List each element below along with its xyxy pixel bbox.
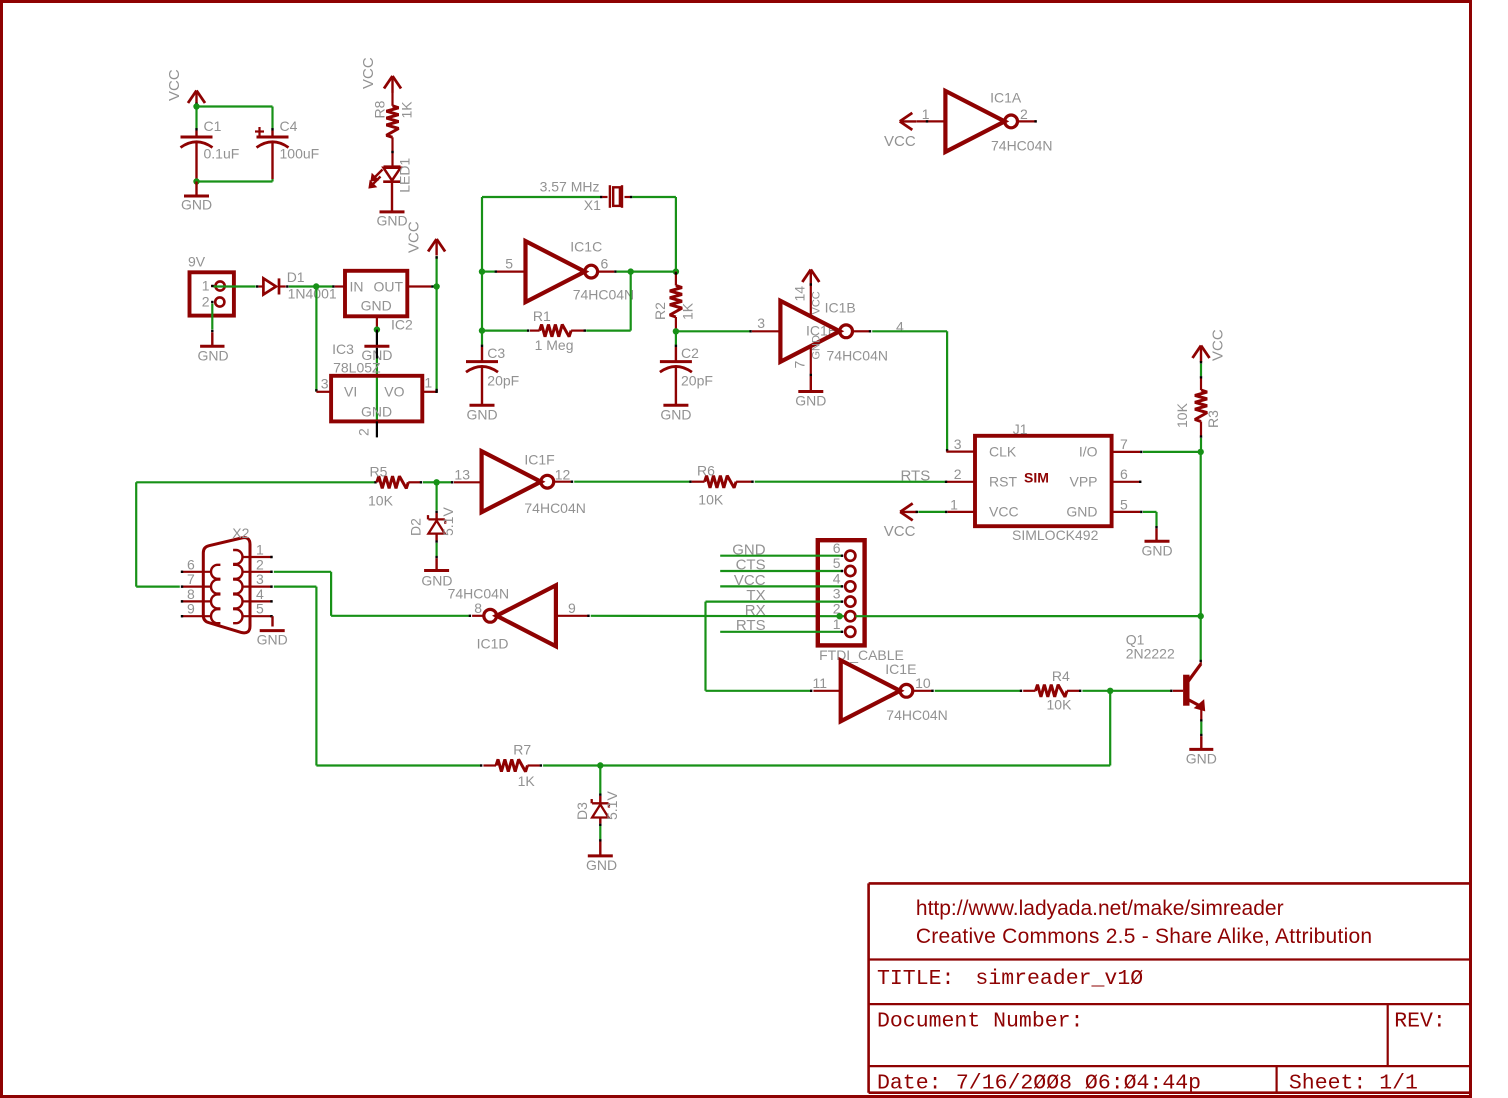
- svg-text:IC2: IC2: [391, 317, 413, 333]
- wire collector up: [1200, 616, 1202, 664]
- pin tick D1 cathode: [286, 285, 288, 287]
- svg-text:R3: R3: [1205, 410, 1221, 428]
- svg-text:5: 5: [1120, 496, 1128, 512]
- junction node R2 top: [673, 268, 679, 274]
- wire J1 GND to ground: [1143, 512, 1157, 529]
- svg-text:1: 1: [424, 375, 432, 391]
- wire R6 to J1 RST: [755, 481, 946, 483]
- wire R1 to feedback: [586, 272, 631, 331]
- inverter IC1B: [780, 300, 888, 364]
- svg-text:C1: C1: [204, 118, 222, 134]
- title block license text: [916, 925, 1372, 948]
- resistor R1: [530, 308, 585, 353]
- junction node Q1 collector: [1198, 613, 1204, 619]
- svg-text:9V: 9V: [188, 254, 206, 270]
- svg-text:IC1F: IC1F: [524, 452, 554, 468]
- inverter IC1E: [841, 660, 948, 723]
- junction node R5-D2: [433, 479, 439, 485]
- pin ticks crystal: [601, 196, 631, 198]
- pin IC3 VO stub: [422, 375, 437, 394]
- svg-text:1: 1: [202, 278, 210, 294]
- wire TX down to IC1E: [706, 602, 812, 692]
- pin IC1B pin3: [752, 315, 780, 331]
- pin J1 pin2 RST: [946, 466, 975, 482]
- wire VCC to R3: [1200, 364, 1202, 379]
- svg-text:74HC04N: 74HC04N: [524, 500, 585, 516]
- svg-text:4: 4: [256, 586, 264, 602]
- ground GND below IC1B: [795, 392, 826, 409]
- svg-text:GND: GND: [361, 298, 392, 314]
- pin X2 pin4: [243, 586, 273, 603]
- net label RTS: [901, 468, 931, 485]
- svg-text:5.1V: 5.1V: [440, 507, 456, 536]
- pin IC3 VI stub: [316, 376, 331, 392]
- svg-text:4: 4: [833, 571, 841, 587]
- svg-text:7: 7: [792, 361, 808, 369]
- svg-text:2: 2: [356, 428, 372, 436]
- svg-text:12: 12: [555, 467, 571, 483]
- svg-text:LED1: LED1: [397, 158, 413, 193]
- svg-text:GND: GND: [197, 348, 228, 364]
- svg-text:20pF: 20pF: [681, 373, 713, 389]
- svg-text:10K: 10K: [1047, 697, 1073, 713]
- svg-text:3: 3: [321, 376, 329, 392]
- ground GND between IC2 and IC3: [361, 330, 392, 363]
- pin IC1B pin7 GND: [792, 335, 823, 392]
- svg-text:VCC: VCC: [166, 69, 183, 101]
- resistor R6: [692, 463, 753, 508]
- svg-text:7: 7: [1120, 436, 1128, 452]
- junction node I/O-R3: [1198, 449, 1204, 455]
- svg-text:3: 3: [833, 586, 841, 602]
- pin X2 pin8: [181, 586, 211, 603]
- svg-text:C4: C4: [280, 118, 298, 134]
- svg-text:1: 1: [922, 106, 930, 122]
- junction node R4-R7: [1107, 688, 1113, 694]
- capacitor C4 (polarized): [255, 118, 319, 179]
- pin tick 9V pin1: [211, 285, 213, 287]
- junction node D1-IC2: [313, 283, 319, 289]
- pin IC1C pin5: [497, 256, 526, 272]
- inverter IC1A: [945, 90, 1052, 154]
- svg-text:D1: D1: [287, 269, 305, 285]
- svg-text:GND: GND: [466, 407, 497, 423]
- ground GND below LED1: [376, 182, 407, 229]
- power symbol VCC (R8): [360, 57, 401, 92]
- power symbol VCC (IC2 OUT): [406, 221, 445, 286]
- wire RX through connector: [855, 615, 1200, 617]
- wire C1 top to C4 top: [197, 107, 273, 129]
- svg-text:1K: 1K: [518, 773, 536, 789]
- wire R5 to IC1F: [423, 481, 437, 483]
- wire bottom rail left: [316, 764, 481, 766]
- svg-text:13: 13: [454, 467, 470, 483]
- svg-text:10K: 10K: [698, 492, 724, 508]
- svg-text:SIMLOCK492: SIMLOCK492: [1012, 527, 1099, 543]
- svg-text:5.1V: 5.1V: [604, 791, 620, 820]
- junction node C3-R1: [479, 327, 485, 333]
- svg-text:RST: RST: [989, 474, 1017, 490]
- svg-text:GND: GND: [1141, 543, 1172, 559]
- wire Q1 emitter to ground: [1200, 707, 1202, 750]
- svg-text:2: 2: [202, 294, 210, 310]
- pin IC1F pin12: [554, 467, 572, 483]
- svg-text:GND: GND: [795, 393, 826, 409]
- net wire RTS (FTDI pin1): [720, 617, 843, 634]
- pin IC1F pin13: [454, 467, 482, 483]
- crystal X1: [540, 179, 630, 214]
- wire 9V pin1 to D1: [214, 285, 256, 287]
- wire R3 to I/O junction: [1200, 438, 1202, 452]
- capacitor C1: [181, 118, 240, 179]
- junction node IC1C in: [479, 268, 485, 274]
- pin J1 pin6 VPP: [1112, 466, 1142, 483]
- junction node IC2 GND: [374, 326, 380, 332]
- pin X2 pin1: [243, 542, 273, 559]
- resistor R2: [652, 272, 696, 329]
- svg-text:6: 6: [833, 540, 841, 556]
- wire VCC rail down to IC3 VO: [436, 287, 438, 392]
- pin IC1B pin4: [853, 319, 904, 335]
- pin X2 pin5: [243, 601, 273, 618]
- svg-text:VCC: VCC: [1210, 329, 1227, 361]
- pin IC1A pin1: [917, 106, 946, 123]
- svg-text:TITLE:: TITLE:: [877, 967, 954, 991]
- wire IC2 OUT junction: [434, 285, 437, 287]
- wire IC1D out to FTDI RX row: [591, 615, 846, 618]
- pin X2 pin2: [243, 556, 273, 573]
- svg-text:8: 8: [474, 600, 482, 616]
- pin X2 pin6: [181, 556, 211, 573]
- svg-text:20pF: 20pF: [487, 373, 519, 389]
- wire bottom rail right: [600, 691, 1110, 766]
- wire R7 to D3 junction: [543, 764, 600, 766]
- svg-text:2: 2: [256, 556, 264, 572]
- ground GND for J1 pin5: [1141, 529, 1172, 559]
- svg-text:1: 1: [950, 496, 958, 512]
- inverter IC1B hidden name: [806, 323, 837, 339]
- svg-text:74HC04N: 74HC04N: [886, 707, 947, 723]
- junction node R1 top: [628, 268, 634, 274]
- junction node VCC-C1: [193, 103, 199, 110]
- svg-text:10K: 10K: [1174, 402, 1190, 428]
- svg-text:74HC04N: 74HC04N: [573, 287, 634, 303]
- wire junction to Q1 base: [1110, 690, 1171, 692]
- pin IC1A pin2: [1018, 106, 1037, 123]
- svg-text:GND: GND: [1186, 751, 1217, 767]
- power symbol VCC (J1 pin1): [884, 503, 946, 540]
- wire junction down to IC3 VI: [315, 287, 317, 392]
- power symbol VCC (R3): [1193, 329, 1227, 363]
- svg-text:I/O: I/O: [1079, 444, 1098, 460]
- svg-text:simreader_v1Ø: simreader_v1Ø: [975, 967, 1143, 991]
- net wire CTS (FTDI pin5): [720, 557, 843, 574]
- wire R4 to base junction: [1082, 690, 1110, 692]
- net wire VCC (FTDI pin4): [720, 572, 843, 589]
- svg-text:2N2222: 2N2222: [1126, 646, 1175, 662]
- svg-text:2: 2: [954, 466, 962, 482]
- svg-text:14: 14: [792, 286, 808, 302]
- svg-text:VCC: VCC: [884, 523, 916, 540]
- wire GND net through IC3: [376, 348, 378, 422]
- pin IC2 IN stub: [335, 285, 345, 287]
- svg-text:IC1C: IC1C: [570, 239, 602, 255]
- svg-text:IN: IN: [350, 279, 364, 295]
- title block document number row: [877, 1010, 1446, 1034]
- wire junction to pin13: [437, 481, 453, 483]
- svg-text:6: 6: [601, 256, 609, 272]
- pin IC2 GND stub: [376, 316, 378, 329]
- svg-text:6: 6: [1120, 466, 1128, 482]
- wire C1 bottom to C4 bottom: [197, 179, 273, 182]
- svg-text:http://www.ladyada.net/make/si: http://www.ladyada.net/make/simreader: [916, 897, 1284, 920]
- pin IC3 GND stub: [356, 421, 377, 437]
- svg-text:7/16/2ØØ8 Ø6:Ø4:44p: 7/16/2ØØ8 Ø6:Ø4:44p: [956, 1072, 1201, 1096]
- wire X2 pin3 down: [274, 587, 317, 766]
- svg-text:1K: 1K: [399, 101, 415, 119]
- wire IC1C out to R2 top: [617, 271, 676, 273]
- power symbol VCC (IC1B pin14): [792, 270, 823, 317]
- title block url text: [916, 897, 1284, 920]
- connector FTDI cable box: [818, 540, 904, 663]
- svg-text:7: 7: [187, 571, 195, 587]
- net wire TX (FTDI pin3): [706, 587, 844, 604]
- wire IC1C input: [482, 270, 496, 272]
- junction node R7-D3: [597, 762, 603, 768]
- svg-text:GND: GND: [181, 197, 212, 213]
- wire R2 to IC1B pin3: [676, 330, 751, 332]
- wire down to C3/R1: [481, 272, 483, 331]
- net wire GND (FTDI pin6): [720, 541, 843, 558]
- ground GND below C3: [466, 405, 497, 422]
- wire D2 to ground: [436, 543, 438, 571]
- ground GND below D2: [421, 571, 452, 589]
- wire IC1B out to J1 CLK: [872, 331, 947, 451]
- pin IC1D pin9: [556, 600, 589, 617]
- pin J1 pin1 VCC: [948, 496, 975, 512]
- connector X2 DB9 body: [203, 525, 250, 633]
- pin IC2 OUT stub: [407, 285, 432, 287]
- svg-text:D3: D3: [574, 802, 590, 820]
- pin tick IC2 IN: [332, 285, 334, 287]
- svg-text:C3: C3: [487, 345, 505, 361]
- voltage regulator IC2 box: [345, 271, 413, 333]
- svg-text:VCC: VCC: [989, 504, 1019, 520]
- svg-text:IC1D: IC1D: [477, 636, 509, 652]
- svg-text:74HC04N: 74HC04N: [827, 348, 888, 364]
- svg-text:6: 6: [187, 556, 195, 572]
- diode D1: [259, 269, 337, 302]
- inverter IC1C: [526, 239, 635, 303]
- resistor R5: [368, 464, 421, 509]
- svg-text:1K: 1K: [680, 302, 696, 320]
- svg-text:VI: VI: [344, 384, 357, 400]
- connector J1 SIM socket box: [975, 421, 1112, 543]
- pin X2 pin3: [243, 571, 273, 588]
- svg-text:VCC: VCC: [811, 291, 823, 314]
- resistor R4: [1023, 668, 1080, 713]
- svg-text:R2: R2: [652, 302, 668, 320]
- connector X1 9V battery: [188, 254, 234, 316]
- svg-text:10: 10: [915, 675, 931, 691]
- svg-text:3: 3: [757, 315, 765, 331]
- svg-text:5: 5: [256, 601, 264, 617]
- svg-text:Sheet: 1/1: Sheet: 1/1: [1289, 1072, 1418, 1096]
- ground GND below C1: [181, 182, 212, 213]
- svg-text:GND: GND: [660, 407, 691, 423]
- ground GND for X2 pin5: [257, 616, 288, 647]
- svg-text:10K: 10K: [368, 493, 394, 509]
- svg-text:R1: R1: [533, 308, 551, 324]
- svg-text:Document Number:: Document Number:: [877, 1010, 1083, 1034]
- ground GND below Q1: [1186, 749, 1217, 766]
- svg-text:GND: GND: [376, 213, 407, 229]
- svg-text:R5: R5: [370, 464, 388, 480]
- svg-text:1: 1: [256, 542, 264, 558]
- pin X2 pin7: [181, 571, 211, 588]
- junction node C1-C4 bottom: [193, 178, 199, 184]
- wire D3 to ground: [599, 826, 601, 856]
- resistor R8: [372, 92, 415, 137]
- wire X2 pin2 to IC1D: [274, 572, 470, 617]
- pin IC1E pin11: [812, 675, 840, 691]
- svg-text:IC3: IC3: [332, 341, 354, 357]
- pin IC1C pin6: [598, 256, 615, 273]
- svg-text:Date:: Date:: [877, 1072, 942, 1096]
- resistor R7: [483, 742, 541, 790]
- svg-text:GND: GND: [811, 335, 823, 360]
- zener diode D3: [574, 766, 620, 827]
- svg-text:11: 11: [812, 675, 827, 691]
- svg-text:0.1uF: 0.1uF: [204, 146, 240, 162]
- svg-text:78L05Z: 78L05Z: [333, 360, 381, 376]
- power symbol VCC (C1/C4 rail): [166, 69, 205, 107]
- pin J1 pin7 I/O: [1112, 436, 1142, 453]
- svg-text:OUT: OUT: [373, 279, 403, 295]
- svg-text:R6: R6: [697, 463, 715, 479]
- svg-text:IC1A: IC1A: [990, 90, 1022, 106]
- svg-text:GND: GND: [257, 632, 288, 648]
- svg-text:3: 3: [954, 436, 962, 452]
- svg-text:1N4001: 1N4001: [288, 286, 337, 302]
- junction node IC2 OUT: [433, 283, 439, 289]
- svg-text:IC1E: IC1E: [885, 661, 916, 677]
- svg-text:74HC04N: 74HC04N: [991, 138, 1052, 154]
- svg-text:RTS: RTS: [736, 617, 766, 634]
- svg-text:D2: D2: [408, 518, 424, 536]
- svg-text:VCC: VCC: [884, 133, 916, 150]
- svg-text:Creative Commons 2.5 - Share A: Creative Commons 2.5 - Share Alike, Attr…: [916, 925, 1372, 948]
- svg-text:1 Meg: 1 Meg: [535, 337, 574, 353]
- junction node FTDI RX: [836, 613, 842, 619]
- wire J1 I/O to R3: [1143, 451, 1201, 453]
- inverter IC1D: [448, 585, 556, 651]
- svg-text:9: 9: [187, 601, 195, 617]
- power symbol VCC (IC1A input): [884, 113, 916, 150]
- svg-text:100uF: 100uF: [280, 146, 320, 162]
- ground GND below C2: [660, 405, 691, 422]
- zener diode D2: [408, 482, 457, 543]
- LED LED1: [369, 158, 412, 193]
- pin ticks C1/C4 tops: [197, 128, 273, 130]
- capacitor C2: [660, 331, 713, 405]
- svg-text:R4: R4: [1052, 668, 1070, 684]
- pin IC1D pin8: [472, 600, 483, 616]
- svg-text:R8: R8: [372, 100, 388, 118]
- svg-text:3.57 MHz: 3.57 MHz: [540, 179, 600, 195]
- svg-text:SIM: SIM: [1024, 470, 1049, 486]
- svg-text:2: 2: [1020, 106, 1028, 122]
- svg-text:8: 8: [187, 586, 195, 602]
- svg-text:GND: GND: [361, 404, 392, 420]
- svg-text:VO: VO: [384, 384, 404, 400]
- wire IC1E out to R4: [935, 690, 1021, 692]
- svg-text:CLK: CLK: [989, 444, 1017, 460]
- title block frame: [869, 883, 1471, 1092]
- svg-text:VPP: VPP: [1069, 474, 1097, 490]
- svg-text:C2: C2: [681, 345, 699, 361]
- pin J1 pin5 GND: [1112, 496, 1142, 513]
- ground GND below D3: [586, 856, 617, 873]
- title block date row: [877, 1072, 1418, 1096]
- svg-text:X1: X1: [584, 197, 601, 213]
- svg-text:GND: GND: [1066, 504, 1097, 520]
- svg-text:5: 5: [833, 555, 841, 571]
- wire R8 to LED1: [391, 137, 393, 166]
- wire X2 pin7 to R5 line: [136, 481, 375, 586]
- svg-text:5: 5: [505, 256, 513, 272]
- wire IC1F out to R6: [574, 481, 690, 483]
- title block TITLE row: [877, 967, 1143, 991]
- svg-text:74HC04N: 74HC04N: [448, 586, 509, 602]
- svg-text:R7: R7: [513, 742, 531, 758]
- svg-text:REV:: REV:: [1394, 1010, 1446, 1034]
- wire D1 to IC2 IN: [289, 285, 333, 287]
- svg-text:9: 9: [568, 600, 576, 616]
- net label RX (FTDI pin2): [745, 602, 766, 619]
- pin X2 pin9: [181, 601, 211, 618]
- junction node R2-C2: [673, 328, 679, 334]
- svg-text:IC1B: IC1B: [825, 300, 856, 316]
- svg-text:GND: GND: [586, 857, 617, 873]
- wire C3 junction to R1: [482, 329, 528, 331]
- pin Q1 base: [1173, 690, 1183, 692]
- svg-text:X2: X2: [232, 525, 249, 541]
- inverter IC1F: [482, 451, 586, 516]
- resistor R3: [1174, 379, 1221, 438]
- pin J1 pin3 CLK: [946, 436, 975, 452]
- capacitor C3: [466, 331, 519, 406]
- svg-text:VCC: VCC: [406, 221, 423, 253]
- svg-text:VCC: VCC: [360, 57, 377, 89]
- transistor Q1 2N2222: [1126, 632, 1205, 711]
- pin IC1E pin10: [914, 675, 933, 692]
- wire crystal feedback top: [482, 197, 676, 269]
- wire I/O rail down: [1200, 452, 1202, 616]
- svg-text:J1: J1: [1013, 421, 1028, 437]
- pin tick D1 anode: [256, 285, 258, 287]
- voltage regulator IC3 78L05 box: [331, 341, 422, 421]
- svg-text:3: 3: [256, 571, 264, 587]
- ground GND below 9V: [197, 304, 228, 364]
